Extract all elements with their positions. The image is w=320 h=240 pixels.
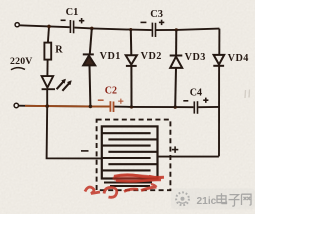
svg-text:VD1: VD1 (100, 51, 121, 62)
svg-text:VD3: VD3 (185, 52, 206, 63)
svg-text:220V: 220V (10, 56, 33, 67)
svg-text:VD4: VD4 (228, 53, 249, 64)
svg-text:C1: C1 (66, 7, 79, 18)
svg-text:C2: C2 (105, 86, 117, 97)
svg-text:21ic: 21ic (197, 196, 217, 207)
svg-text:R: R (55, 45, 63, 56)
svg-text:C3: C3 (150, 9, 163, 20)
svg-text:C4: C4 (190, 87, 202, 98)
svg-text:VD2: VD2 (141, 51, 162, 62)
